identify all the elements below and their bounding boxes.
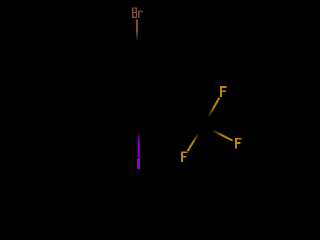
bond C6-C1 <box>105 51 138 70</box>
F2 stem <box>235 138 237 149</box>
molecule: 4-bromo-1-iodo-2-(trifluoromethyl)benzene on black background <box>0 0 300 176</box>
bond C7-F2 (half bond fading from black to dark goldenrod) <box>203 126 232 141</box>
bond C3-C4 <box>138 107 171 126</box>
atom label I <box>137 158 140 169</box>
F3 middle bar <box>181 156 187 158</box>
bond C4-I (half bond fading from black to purple) <box>138 126 140 158</box>
atom label F1 <box>220 86 227 97</box>
aromatic inner bond C5-C6 <box>110 72 112 103</box>
bond C3-C7 (ring to CF3 carbon) <box>171 107 204 126</box>
bond C5-C6 <box>104 69 106 107</box>
letter r arm tip <box>142 11 143 12</box>
benzene ring carbon bonds (black on black, invisible in source) <box>105 51 203 126</box>
letter B <box>132 7 137 18</box>
bond C1-Br (half bond fading from black to brick red) <box>136 19 138 50</box>
aromatic inner bond C1-C2 <box>139 57 165 72</box>
F1 top bar <box>220 86 227 88</box>
F3 top bar <box>181 152 188 154</box>
letter r arm <box>138 10 142 11</box>
bond C4-C5 <box>105 107 138 126</box>
F1 stem <box>220 86 222 97</box>
F2 top bar <box>235 138 242 140</box>
atom label F2 <box>235 138 242 149</box>
F2 middle bar <box>235 142 241 144</box>
atom label F3 <box>181 152 188 163</box>
F3 stem <box>181 152 183 163</box>
aromatic inner bond C3-C4 <box>139 103 165 118</box>
bond C7-F1 (half bond fading from black to dark goldenrod) <box>203 98 219 126</box>
letter I bar <box>137 158 140 169</box>
bond C7-F3 (half bond fading from black to dark goldenrod) <box>188 126 204 151</box>
F1 middle bar <box>220 90 226 92</box>
bond C1-C2 <box>138 51 171 70</box>
bond C2-C3 <box>170 69 172 107</box>
atom label Br <box>132 7 143 18</box>
letter r stem <box>138 10 139 18</box>
